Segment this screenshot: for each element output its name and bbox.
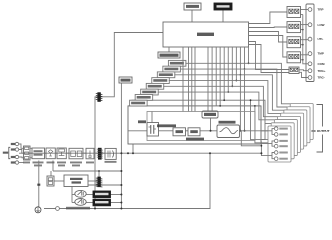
svg-text:LOW: LOW bbox=[318, 23, 325, 27]
svg-text:TMP: TMP bbox=[318, 52, 324, 56]
svg-text:COM: COM bbox=[318, 62, 326, 66]
svg-text:DC OUTPUT: DC OUTPUT bbox=[312, 129, 330, 133]
svg-text:TRG+: TRG+ bbox=[318, 69, 326, 73]
svg-text:TRP: TRP bbox=[318, 8, 324, 12]
svg-text:TRG-: TRG- bbox=[318, 76, 325, 80]
svg-text:UTL: UTL bbox=[318, 37, 324, 41]
